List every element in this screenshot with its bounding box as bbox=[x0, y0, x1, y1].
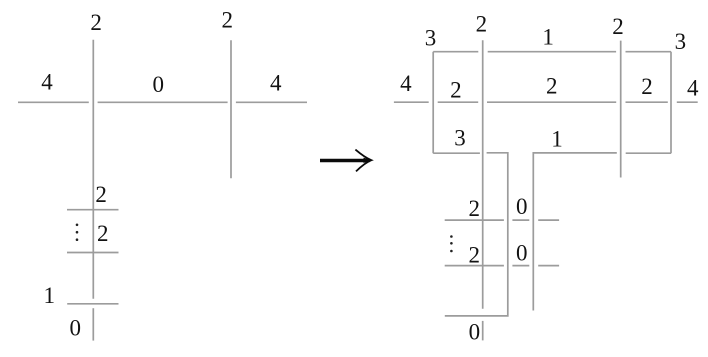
svg-text:1: 1 bbox=[44, 283, 56, 308]
svg-text:1: 1 bbox=[542, 25, 554, 50]
wire: right box left edge bbox=[432, 52, 434, 154]
wire: left axis segment b bbox=[98, 101, 228, 103]
svg-text:2: 2 bbox=[641, 74, 653, 99]
wire: top line segment a bbox=[433, 51, 478, 53]
svg-text:4: 4 bbox=[687, 75, 699, 100]
vertical dots left figure bbox=[76, 224, 79, 242]
wire: left main vertical lower stub bbox=[92, 308, 94, 340]
wire: right tick row1 left bbox=[445, 219, 504, 221]
arrow head tip fill bbox=[364, 158, 373, 163]
wire: right first tall vertical upper bbox=[482, 40, 484, 309]
wire: right axis segment d bbox=[626, 101, 668, 103]
svg-text:2: 2 bbox=[476, 12, 488, 37]
wire: right tick row2 middle bbox=[512, 265, 529, 267]
svg-text:3: 3 bbox=[425, 25, 437, 50]
svg-text:3: 3 bbox=[454, 125, 466, 150]
arrow head bbox=[355, 150, 371, 172]
wire: right first tall vertical lower stub bbox=[482, 321, 484, 341]
svg-text:2: 2 bbox=[450, 78, 462, 103]
wire: bottom line right segment bbox=[626, 152, 671, 154]
wire: right second tall vertical bbox=[620, 41, 622, 178]
wire: top line segment b bbox=[488, 51, 616, 53]
wire: left main vertical upper bbox=[92, 40, 94, 299]
svg-text:0: 0 bbox=[69, 316, 81, 341]
wire: channel right wall with top run bbox=[533, 153, 617, 311]
wire: right axis segment e bbox=[677, 101, 698, 103]
vertical dots right figure bbox=[450, 235, 453, 252]
svg-text:1: 1 bbox=[551, 126, 563, 151]
wire: left tick 2 bbox=[67, 252, 119, 254]
svg-text:4: 4 bbox=[400, 71, 412, 96]
svg-text:4: 4 bbox=[270, 71, 282, 96]
wire: right tick row2 right bbox=[538, 265, 559, 267]
wire: right axis segment a bbox=[394, 101, 429, 103]
svg-text:2: 2 bbox=[90, 10, 102, 35]
wire: left second vertical bbox=[230, 40, 232, 178]
wire: left tick 1 bbox=[67, 209, 119, 211]
wire: top line segment c bbox=[626, 51, 672, 53]
wire: bottom line left segment bbox=[433, 152, 480, 154]
svg-text:2: 2 bbox=[97, 221, 109, 246]
svg-text:2: 2 bbox=[546, 74, 558, 99]
svg-text:2: 2 bbox=[469, 196, 481, 221]
wire: right axis segment c bbox=[487, 101, 616, 103]
svg-text:4: 4 bbox=[41, 69, 53, 94]
arrow shaft bbox=[320, 159, 370, 162]
svg-text:0: 0 bbox=[516, 241, 528, 266]
svg-text:0: 0 bbox=[152, 72, 164, 97]
svg-text:2: 2 bbox=[612, 14, 624, 39]
wire: right tick row2 left bbox=[445, 265, 504, 267]
svg-text:0: 0 bbox=[469, 319, 481, 344]
wire: left axis segment c bbox=[236, 101, 307, 103]
wire: right tick row1 middle bbox=[512, 219, 529, 221]
wire: left tick 3 bbox=[67, 303, 118, 305]
wire: right box right edge bbox=[670, 52, 672, 154]
svg-text:3: 3 bbox=[675, 29, 687, 54]
wire: right axis segment b bbox=[438, 101, 479, 103]
svg-text:0: 0 bbox=[516, 194, 528, 219]
svg-text:2: 2 bbox=[469, 242, 481, 267]
wire: channel left wall with top and bottom bbox=[445, 153, 508, 316]
wire: right tick row1 right bbox=[538, 219, 559, 221]
wire: left axis segment a bbox=[18, 101, 89, 103]
svg-text:2: 2 bbox=[221, 8, 233, 33]
svg-text:2: 2 bbox=[95, 182, 107, 207]
